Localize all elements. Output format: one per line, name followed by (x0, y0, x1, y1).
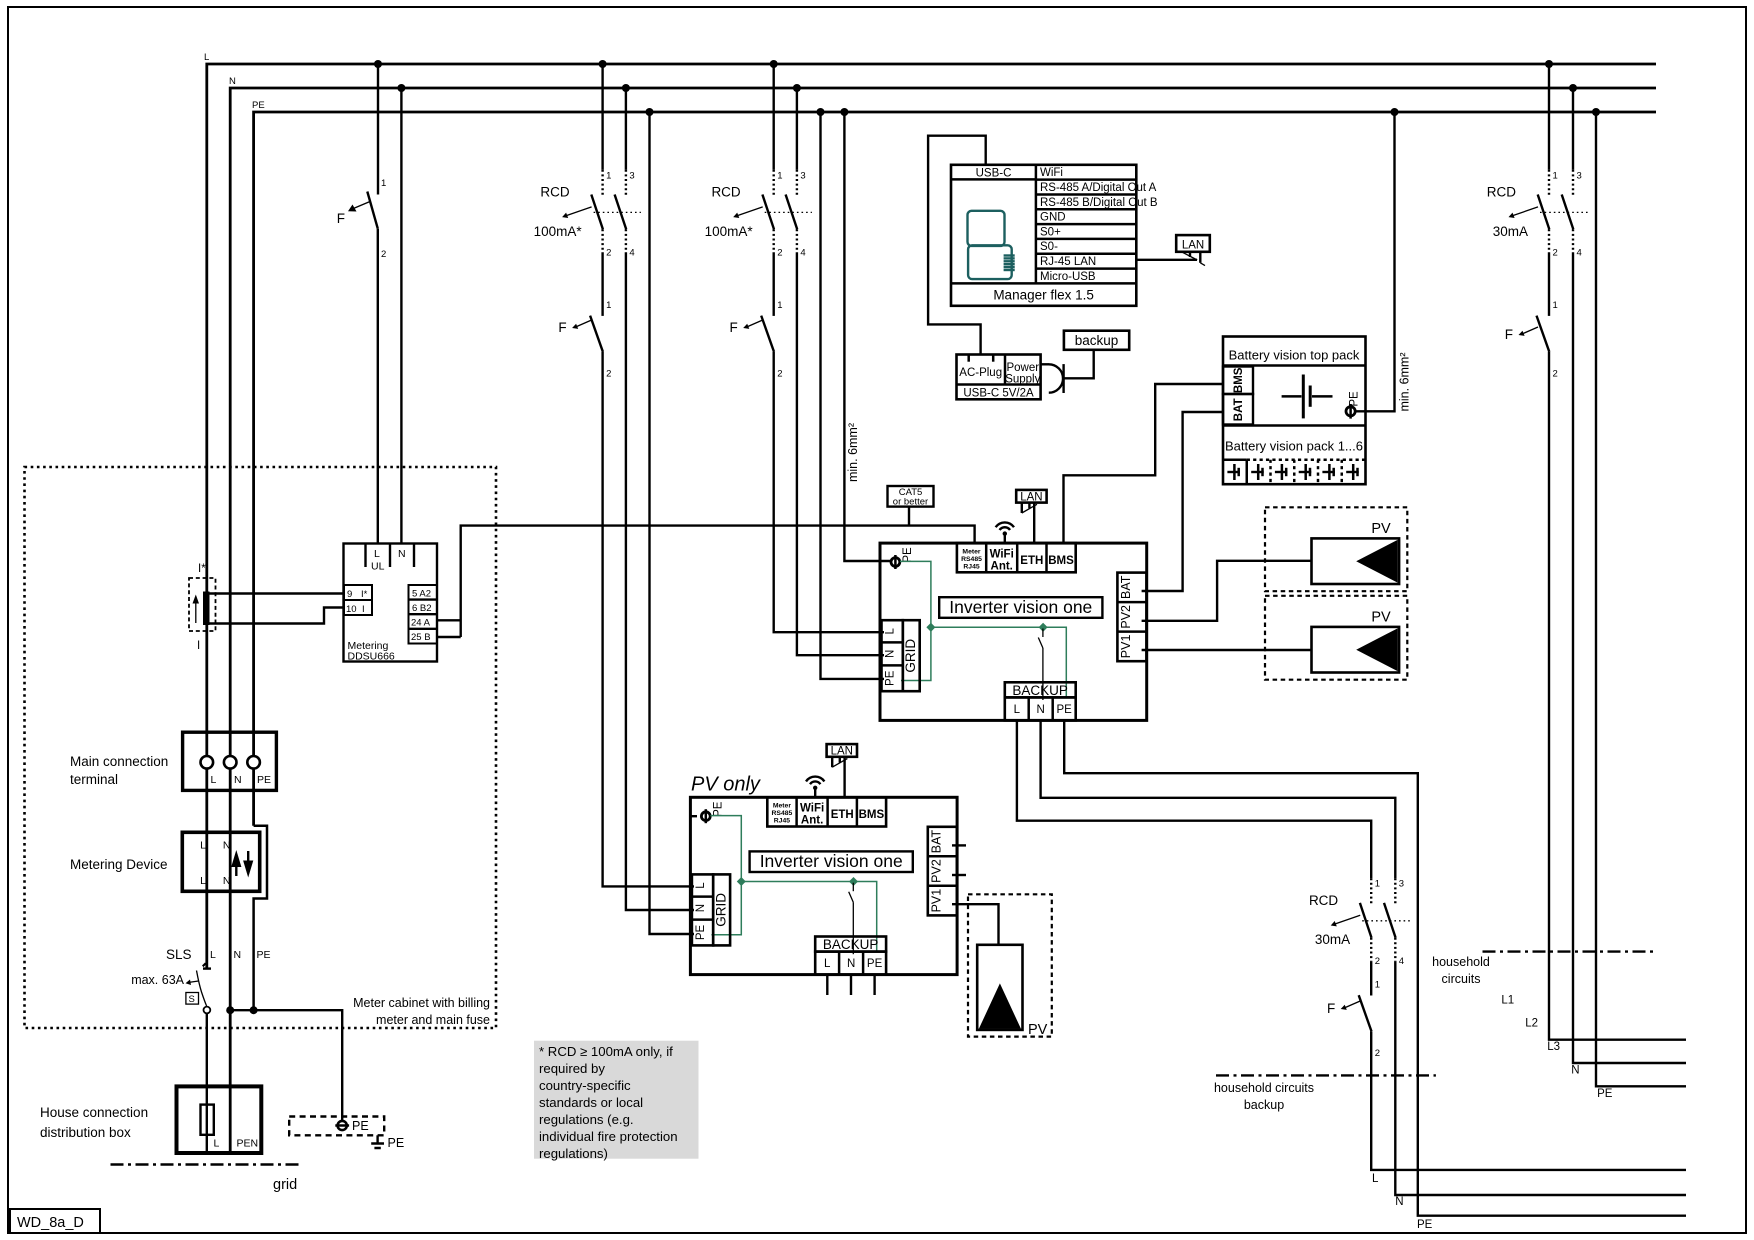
svg-text:L: L (214, 1138, 220, 1150)
meter terminal 9 I* (344, 585, 372, 600)
wire BMS inverter1 to battery (1064, 384, 1224, 543)
svg-text:WiFi: WiFi (990, 549, 1014, 561)
svg-text:Meter: Meter (773, 803, 791, 810)
svg-text:backup: backup (1075, 333, 1119, 348)
svg-text:L: L (1372, 1173, 1379, 1185)
svg-text:N: N (695, 904, 707, 912)
Manager flex 1.5 box (951, 165, 1136, 306)
svg-text:or better: or better (893, 497, 928, 508)
svg-text:DDSU666: DDSU666 (348, 651, 395, 663)
RCD 100mA* #1 trip arrow (562, 207, 592, 218)
svg-text:L: L (211, 774, 217, 786)
CT secondary wire to meter terminal 9 (210, 592, 345, 594)
svg-text:30mA: 30mA (1493, 224, 1528, 239)
battery cell separator dashed 4 (1317, 460, 1320, 485)
svg-text:N: N (398, 548, 406, 560)
svg-text:PE: PE (902, 547, 914, 563)
svg-text:BAT: BAT (1119, 575, 1133, 599)
fuse switch F (1505, 300, 1558, 380)
svg-text:BMS: BMS (859, 809, 885, 821)
RCD 30mA top pole 3-4 (1562, 170, 1582, 259)
battery cell separator dashed 2 (1269, 460, 1272, 485)
svg-text:UL: UL (371, 561, 385, 573)
svg-text:max. 63A: max. 63A (131, 973, 184, 987)
RCD 30mA top labels (1487, 185, 1528, 239)
svg-text:F: F (337, 211, 345, 226)
svg-text:meter and main fuse: meter and main fuse (376, 1013, 490, 1027)
fuse switch F (1327, 980, 1380, 1060)
svg-text:min. 6mm²: min. 6mm² (846, 423, 860, 482)
house fuse (201, 1105, 214, 1135)
svg-text:2: 2 (777, 369, 782, 380)
svg-text:LAN: LAN (831, 746, 853, 758)
inverter 2 (PV only) green PE wire (710, 816, 741, 935)
inverter 2 BACKUP stub PE (873, 975, 875, 995)
svg-text:Micro-USB: Micro-USB (1040, 271, 1096, 283)
svg-text:F: F (558, 320, 566, 335)
svg-text:regulations (e.g.: regulations (e.g. (539, 1112, 634, 1127)
battery mini cell symbol 4 (1299, 464, 1312, 480)
svg-text:N: N (1395, 1196, 1403, 1208)
junction dot N x1573 (1569, 84, 1577, 92)
junction dot PE x1394 battery PE (1391, 108, 1399, 116)
svg-text:terminal: terminal (70, 772, 118, 787)
svg-text:Manager flex 1.5: Manager flex 1.5 (993, 288, 1094, 303)
PEN link wire to earth terminal (230, 1010, 342, 1121)
svg-text:Ant.: Ant. (801, 815, 823, 827)
fuse switch F (558, 300, 611, 380)
svg-text:S: S (189, 994, 195, 1005)
Manager row RS-485 A/Digital Out A (1036, 180, 1157, 194)
svg-text:1: 1 (606, 300, 611, 311)
svg-text:30mA: 30mA (1315, 932, 1350, 947)
wire L chain1 mid (601, 254, 603, 316)
svg-text:RS485: RS485 (961, 556, 982, 563)
svg-text:PV2: PV2 (929, 859, 943, 883)
backup box (1064, 331, 1129, 350)
svg-text:RJ-45 LAN: RJ-45 LAN (1040, 256, 1096, 268)
PE terminal dashed box (289, 1117, 384, 1136)
svg-text:9: 9 (347, 589, 352, 600)
svg-text:F: F (1327, 1001, 1335, 1016)
Manager LAN connector icon (1183, 252, 1206, 266)
wire N household circuits (1573, 254, 1686, 1064)
RCD 100mA* #1 coupling (594, 211, 641, 213)
svg-text:WiFi: WiFi (1040, 167, 1063, 179)
RCD 30mA backup trip arrow (1331, 915, 1361, 926)
L bus (204, 52, 1656, 968)
RS485 wire 24A to inverter (437, 619, 461, 621)
svg-text:I*: I* (198, 563, 206, 575)
battery top pack header (1223, 348, 1366, 366)
title block WD_8a_D (10, 1209, 100, 1233)
svg-text:PE: PE (1417, 1219, 1433, 1231)
wire N chain2 to GRID N of inverter 1 (797, 254, 884, 656)
svg-text:PE: PE (1597, 1088, 1613, 1100)
Metering DDSU666 box (344, 544, 438, 663)
House connection caption (40, 1105, 148, 1140)
svg-text:N: N (847, 958, 855, 970)
RCD 30mA top pole 1-2 (1538, 170, 1558, 259)
wire L1 household circuits (1549, 352, 1686, 1040)
svg-text:L1: L1 (1501, 995, 1514, 1007)
wire L chain2 to GRID L of inverter 1 (774, 352, 884, 632)
svg-text:GRID: GRID (903, 639, 918, 673)
svg-text:PV: PV (1028, 1022, 1048, 1038)
svg-text:individual fire protection: individual fire protection (539, 1129, 678, 1144)
svg-text:1: 1 (606, 170, 611, 181)
wire L chain2 mid (773, 254, 775, 316)
battery mini cell symbol 1 (1227, 464, 1240, 480)
svg-text:regulations): regulations) (539, 1146, 608, 1161)
PV-only inverter PE stub (690, 815, 697, 817)
svg-text:2: 2 (1375, 1048, 1380, 1059)
inverter 1 LAN box (1016, 490, 1046, 503)
svg-text:5 A2: 5 A2 (412, 589, 431, 600)
fuse F (top-left, L to billing meter) (337, 178, 387, 260)
inverter 1 green node 1 (926, 623, 935, 632)
svg-text:1: 1 (381, 178, 386, 189)
svg-text:circuits: circuits (1442, 972, 1481, 986)
inverter 1 backup changeover switch (1038, 629, 1043, 701)
svg-text:6 B2: 6 B2 (412, 603, 432, 614)
svg-text:PE: PE (885, 670, 897, 686)
household circuits boundary dash-dot (1483, 950, 1655, 952)
inverter 1 LAN connector icon (1022, 503, 1037, 513)
Manager device icon (968, 211, 1015, 279)
battery PE terminal (1346, 391, 1361, 419)
junction dot L x774 (770, 60, 778, 68)
svg-text:PE: PE (867, 958, 883, 970)
svg-text:PEN: PEN (237, 1138, 259, 1150)
svg-text:BMS: BMS (1233, 367, 1245, 393)
inverter 1 LAN wire to ETH (1033, 503, 1035, 543)
inverter 1 DC ports BAT/PV2/PV1 (1117, 573, 1146, 662)
svg-text:BAT: BAT (1233, 398, 1245, 421)
junction dot N x797 (793, 84, 801, 92)
junction dot PE x650 (646, 108, 654, 116)
wire plug to backup box (1064, 350, 1094, 379)
svg-text:household: household (1432, 955, 1490, 969)
Manager USB-C wire to power supply (928, 136, 986, 355)
meter terminal 10 I (344, 600, 372, 615)
svg-text:RJ45: RJ45 (774, 818, 790, 825)
svg-text:PE: PE (712, 801, 724, 817)
svg-text:N: N (234, 949, 242, 961)
svg-text:SLS: SLS (166, 947, 192, 962)
RCD 100mA* #1 labels (534, 185, 583, 239)
junction dot PE x1596 (1592, 108, 1600, 116)
battery cell separator solid (1246, 460, 1249, 485)
svg-text:RS-485 A/Digital Out A: RS-485 A/Digital Out A (1040, 182, 1157, 194)
battery BMS terminal (1223, 367, 1253, 395)
inverter 2 (PV only) body (690, 797, 957, 974)
svg-text:PE: PE (252, 100, 265, 111)
svg-text:PV1: PV1 (1119, 635, 1133, 659)
svg-text:household circuits: household circuits (1214, 1081, 1314, 1095)
junction dot PE x820 (817, 108, 825, 116)
svg-text:1: 1 (1553, 170, 1558, 181)
svg-text:RJ45: RJ45 (963, 564, 979, 571)
wire N chain2 upper (796, 88, 798, 170)
inverter 2 (PV only) label box (750, 851, 913, 872)
svg-text:PE: PE (257, 774, 271, 786)
Manager row GND (1036, 209, 1136, 223)
svg-text:PE: PE (257, 949, 271, 961)
svg-text:1: 1 (1375, 980, 1380, 991)
House connection distribution box (177, 1086, 262, 1153)
PV array box 1 (1265, 507, 1407, 591)
PE earth terminal circle (335, 1119, 368, 1133)
AC plug prongs (969, 355, 994, 362)
svg-text:4: 4 (1577, 248, 1582, 259)
svg-text:RCD: RCD (1309, 893, 1338, 908)
current transformer arrow (193, 595, 200, 624)
PE bus (252, 100, 1656, 826)
meter cabinet dotted enclosure (25, 467, 497, 1028)
household circuits label (1432, 955, 1490, 986)
wire N chain1 upper (625, 88, 627, 170)
RCD 100mA* #2 trip arrow (733, 207, 763, 218)
svg-text:PV: PV (1371, 610, 1391, 626)
svg-text:RCD: RCD (540, 185, 569, 200)
svg-text:2: 2 (1553, 248, 1558, 259)
svg-text:PV2: PV2 (1119, 605, 1133, 629)
svg-text:3: 3 (629, 170, 634, 181)
RCD 30mA backup pole 3-4 (1384, 878, 1404, 967)
wire BAT inverter1 to battery (1142, 412, 1223, 591)
wire backup N household backup (1395, 962, 1686, 1195)
svg-text:BACKUP: BACKUP (1012, 683, 1068, 698)
RCD 30mA backup coupling (1362, 920, 1410, 922)
svg-text:4: 4 (629, 248, 634, 259)
junction dot N x401 (397, 84, 405, 92)
wire PE household circuits (1596, 112, 1686, 1086)
Manager row S0+ (1036, 224, 1136, 238)
household circuits backup dash-dot (1216, 1074, 1436, 1076)
current transformer primary bar (203, 592, 210, 626)
svg-text:L2: L2 (1525, 1018, 1538, 1030)
svg-text:GND: GND (1040, 212, 1066, 224)
svg-text:LAN: LAN (1182, 240, 1204, 252)
svg-text:1: 1 (1375, 879, 1380, 890)
svg-text:L: L (200, 840, 206, 852)
RCD 100mA* #2 pole 3-4 (786, 170, 806, 259)
svg-text:country-specific: country-specific (539, 1078, 631, 1093)
svg-text:GRID: GRID (713, 893, 728, 927)
wire L chain1 to GRID L of PV-only inverter (603, 352, 694, 887)
Main connection terminal caption (70, 754, 168, 787)
svg-text:1: 1 (777, 170, 782, 181)
svg-text:House connection: House connection (40, 1105, 148, 1120)
svg-text:RS-485 B/Digital Out B: RS-485 B/Digital Out B (1040, 197, 1158, 209)
inverter 2 (PV only) WiFi antenna (806, 777, 824, 798)
svg-text:10: 10 (346, 604, 357, 615)
svg-text:RCD: RCD (1487, 185, 1516, 200)
battery mini cell symbol 3 (1275, 464, 1288, 480)
svg-text:ETH: ETH (1020, 555, 1043, 567)
Manager row S0- (1036, 239, 1136, 253)
inverter 2 (PV only) backup changeover switch (849, 883, 854, 955)
Manager LAN box (1176, 235, 1210, 252)
svg-text:N: N (223, 840, 231, 852)
wire PV2 inverter1 to PV array 1 (1142, 561, 1312, 621)
RCD 100mA* #2 labels (705, 185, 754, 239)
power supply output socket arc (1049, 364, 1063, 392)
svg-text:Metering Device: Metering Device (70, 857, 168, 872)
battery mini cell symbol 2 (1251, 464, 1264, 480)
Manager row Micro-USB (1036, 269, 1136, 283)
svg-text:USB-C: USB-C (976, 168, 1012, 180)
inverter 2 (PV only) green node 1 (737, 877, 746, 886)
wire Manager RJ45 to LAN (1136, 259, 1197, 261)
svg-text:distribution box: distribution box (40, 1125, 131, 1140)
svg-text:LAN: LAN (1020, 491, 1042, 503)
battery PE wire to PE bus (1355, 112, 1394, 411)
battery cell symbol (1282, 375, 1333, 419)
svg-text:Main connection: Main connection (70, 754, 168, 769)
PEN junction dot on N (226, 1006, 234, 1014)
svg-text:min. 6mm²: min. 6mm² (1398, 352, 1412, 411)
svg-text:N: N (234, 774, 242, 786)
RCD 100mA* #1 pole 3-4 (615, 170, 635, 259)
meter cabinet caption (353, 996, 490, 1027)
inverter 2 (PV only) green backup wire (741, 882, 876, 952)
inverter 2 (PV only) LAN box (827, 744, 857, 757)
svg-text:N: N (1037, 704, 1045, 716)
svg-text:RCD: RCD (711, 185, 740, 200)
svg-text:* RCD ≥ 100mA only, if: * RCD ≥ 100mA only, if (539, 1044, 673, 1059)
inverter 2 BAT stub (952, 844, 966, 846)
svg-text:2: 2 (1375, 956, 1380, 967)
inverter 2 (PV only) LAN connector icon (832, 757, 847, 767)
svg-text:BAT: BAT (929, 829, 943, 853)
inverter 1 label box (939, 597, 1102, 618)
wire backup L from inverter 1 (1017, 720, 1371, 878)
svg-text:100mA*: 100mA* (534, 224, 583, 239)
power supply output plug pin (1062, 364, 1064, 393)
PV array box (PV only) (968, 894, 1052, 1038)
Manager internal dividers (951, 165, 1136, 284)
N bus (229, 76, 1656, 1153)
wire backup L mid (1370, 962, 1372, 996)
wire L drop to metering (lower) (377, 229, 379, 544)
inverter 2 (PV only) GRID block (692, 874, 730, 945)
svg-text:Inverter vision one: Inverter vision one (949, 597, 1092, 617)
svg-text:AC-Plug: AC-Plug (959, 367, 1002, 379)
svg-text:PE: PE (388, 1136, 405, 1150)
svg-text:I: I (362, 604, 365, 615)
RCD 30mA top coupling (1540, 211, 1588, 213)
inverter 1 body (880, 543, 1147, 720)
svg-text:PE: PE (1057, 704, 1073, 716)
svg-text:3: 3 (1577, 170, 1582, 181)
svg-text:S0-: S0- (1040, 241, 1058, 253)
wire N topright upper (1572, 88, 1574, 170)
svg-text:L: L (200, 875, 206, 887)
svg-text:N: N (1571, 1065, 1579, 1077)
svg-text:Ant.: Ant. (991, 561, 1013, 573)
svg-text:F: F (729, 320, 737, 335)
grid dash-dot line (111, 1163, 300, 1166)
svg-text:4: 4 (800, 248, 805, 259)
Manager row RJ-45 LAN (1036, 254, 1136, 268)
svg-text:backup: backup (1244, 1098, 1284, 1112)
inverter 2 (PV only) green node 2 (849, 877, 858, 886)
inverter 2 (PV only) top ports Meter/WiFi/ETH/BMS (767, 797, 886, 826)
svg-text:Battery vision pack 1...6: Battery vision pack 1...6 (1225, 439, 1363, 454)
note box (gray) (534, 1041, 699, 1161)
svg-text:Inverter vision one: Inverter vision one (760, 851, 903, 871)
RCD 30mA backup pole 1-2 (1360, 878, 1380, 967)
RCD 30mA top trip arrow (1509, 207, 1539, 218)
Metering Device box (182, 832, 259, 891)
svg-text:WD_8a_D: WD_8a_D (17, 1215, 84, 1231)
svg-text:3: 3 (800, 170, 805, 181)
svg-text:100mA*: 100mA* (705, 224, 754, 239)
svg-text:2: 2 (1553, 369, 1558, 380)
inverter 1 green PE wire (900, 561, 931, 680)
inverter 1 BACKUP block (1005, 682, 1076, 720)
inverter 1 green backup wire (931, 627, 1066, 697)
inverter 1 PE terminal (891, 547, 914, 569)
wire PV1 inverter1 to PV array 2 (1142, 649, 1312, 651)
svg-text:grid: grid (273, 1177, 297, 1193)
svg-text:Supply: Supply (1005, 374, 1040, 386)
RCD 100mA* #2 pole 1-2 (762, 170, 782, 259)
wire backup PE from inverter 1 (1064, 720, 1686, 1215)
RCD 100mA* #1 pole 1-2 (591, 170, 611, 259)
household circuits backup label (1214, 1081, 1314, 1112)
Main connection terminal box (183, 732, 277, 790)
power supply output socket lead (1041, 363, 1049, 365)
svg-text:2: 2 (777, 248, 782, 259)
svg-text:L: L (885, 628, 897, 635)
wire N chain1 to GRID N of PV-only inverter (626, 254, 694, 911)
wire PE tap to inverter 1 PE terminal (844, 112, 891, 561)
battery cell separator dashed 5 (1341, 460, 1344, 485)
svg-text:Meter: Meter (962, 549, 980, 556)
metering device down arrow (243, 851, 253, 878)
inverter 2 (PV only) PE terminal (701, 801, 724, 823)
CAT5 stub wire (908, 507, 910, 526)
svg-text:PE: PE (352, 1119, 369, 1133)
wire L topright upper (1548, 64, 1550, 170)
svg-text:RS485: RS485 (772, 810, 793, 817)
PE bypass jog around metering device (254, 826, 267, 1011)
wire backup L household backup (1371, 1031, 1686, 1170)
svg-text:required by: required by (539, 1061, 605, 1076)
inverter 2 (PV only) DC ports BAT/PV2/PV1 (928, 827, 957, 916)
svg-text:PV1: PV1 (929, 889, 943, 913)
wire L topright mid (1548, 254, 1550, 316)
junction dot L x603 (599, 60, 607, 68)
svg-text:I*: I* (361, 589, 368, 600)
svg-text:Battery vision top pack: Battery vision top pack (1229, 348, 1360, 363)
svg-text:24 A: 24 A (411, 618, 431, 629)
inverter 1 WiFi antenna (996, 522, 1014, 543)
wire L chain1 upper (601, 64, 603, 170)
metering device up arrow (231, 850, 241, 876)
battery mini cell symbol 6 (1346, 464, 1359, 480)
Manager row RS-485 B/Digital Out B (1036, 195, 1158, 209)
svg-text:I: I (197, 640, 200, 652)
Manager row WiFi (1040, 167, 1063, 179)
current transformer dashed box (189, 578, 216, 631)
svg-text:BMS: BMS (1048, 555, 1074, 567)
wire PE chain1 to GRID PE of PV-only inverter (650, 112, 695, 934)
svg-text:Meter cabinet with billing: Meter cabinet with billing (353, 996, 490, 1010)
